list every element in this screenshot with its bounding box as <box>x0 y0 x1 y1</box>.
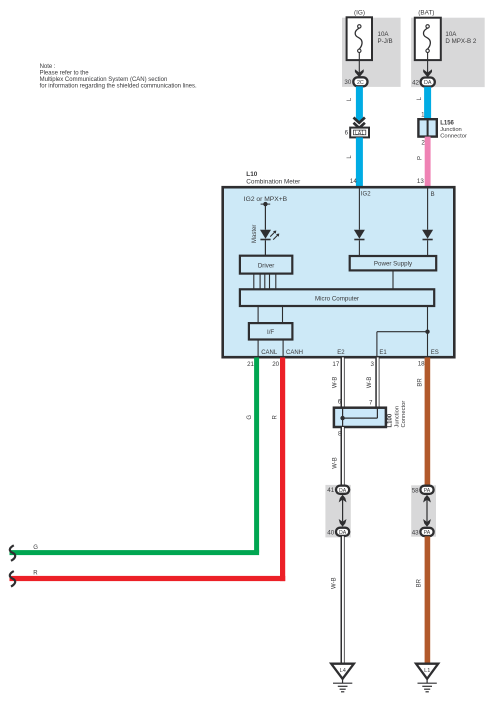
svg-text:ES: ES <box>431 350 439 356</box>
driver to micro computer bus wires <box>254 274 276 290</box>
node ES junction <box>425 330 429 334</box>
fuse block shading right (BAT) <box>411 18 485 87</box>
svg-text:Driver: Driver <box>258 262 275 269</box>
pin 1 <box>421 112 425 119</box>
svg-text:L156: L156 <box>440 121 454 127</box>
pin 13 <box>417 178 424 185</box>
wire W-B L100 pin8 down to connector 41 <box>341 427 345 486</box>
svg-text:13: 13 <box>417 178 424 185</box>
svg-text:Junction: Junction <box>394 406 400 428</box>
svg-text:BR: BR <box>416 578 422 587</box>
svg-text:(IG): (IG) <box>354 9 365 16</box>
svg-text:Master: Master <box>252 225 258 243</box>
pin name E2 <box>337 350 345 356</box>
wire fuse BAT to connector <box>427 53 429 78</box>
ground L4 <box>331 664 354 692</box>
wire color label BR rotated <box>416 578 422 587</box>
wire W-B connector 40 down to ground <box>341 536 345 664</box>
svg-text:E2: E2 <box>337 350 345 356</box>
pin 20 <box>272 361 279 368</box>
fuse IG value label <box>378 31 393 45</box>
svg-text:L10: L10 <box>246 171 257 178</box>
junction LA1 pin 6 <box>345 128 369 138</box>
wire W-B pin3 to L100 pin7 <box>375 357 379 407</box>
svg-text:PA: PA <box>424 530 431 536</box>
svg-text:Connector: Connector <box>440 134 467 140</box>
svg-text:CANL: CANL <box>261 350 278 356</box>
svg-text:40: 40 <box>327 529 334 536</box>
inline connector shading left <box>325 485 350 538</box>
wire BR (brown) pin18 down to connector 58 <box>425 357 431 485</box>
wire E1 branch <box>377 332 428 357</box>
svg-text:W-B: W-B <box>333 457 339 469</box>
wire fuse IG to connector <box>358 53 360 78</box>
wire W-B pin17 to L100 pin6 <box>341 357 345 407</box>
driver box <box>240 256 292 274</box>
Master label <box>252 225 258 243</box>
svg-text:P-J/B: P-J/B <box>378 38 393 45</box>
svg-text:17: 17 <box>332 361 339 368</box>
connector oval 2C pin 30 <box>344 77 367 86</box>
fuse BAT 10A D MPX-B 2 <box>415 18 441 60</box>
pin 17 <box>332 361 339 368</box>
svg-text:DA: DA <box>424 80 432 86</box>
inline connector shading right <box>411 485 436 536</box>
svg-text:R: R <box>273 414 279 419</box>
svg-text:CANH: CANH <box>286 350 303 356</box>
connector oval DA pin 42 <box>412 78 435 87</box>
wire R (red) CANH <box>10 357 286 581</box>
wire color label L <box>417 96 423 100</box>
svg-text:P: P <box>418 156 424 160</box>
power supply box <box>350 256 437 270</box>
svg-text:20: 20 <box>272 361 279 368</box>
pin 3 <box>371 361 375 368</box>
svg-text:10A: 10A <box>445 31 457 38</box>
svg-text:6: 6 <box>338 399 342 406</box>
connector arrows pair right <box>423 495 431 527</box>
svg-text:G: G <box>247 415 253 420</box>
svg-text:L100: L100 <box>388 413 394 427</box>
pin 8 of L100 <box>338 431 342 438</box>
combination meter L10 box <box>223 187 455 357</box>
connector arrows pair left <box>339 495 347 527</box>
svg-text:7: 7 <box>369 399 373 406</box>
wire color label W-B rotated <box>333 457 339 469</box>
svg-text:IG2: IG2 <box>361 192 371 198</box>
IG2 or MPX+B label <box>244 196 288 203</box>
fuse block shading left (IG) <box>342 18 401 87</box>
svg-text:6: 6 <box>345 129 349 136</box>
fuse BAT value label <box>445 31 477 45</box>
pin 7 of L100 <box>369 399 373 406</box>
L100 label rotated <box>388 401 407 428</box>
L10 label <box>246 171 301 185</box>
wire pin14 to diode <box>358 189 360 230</box>
pin 18 <box>418 360 425 367</box>
wire color label P <box>418 156 424 160</box>
wire color label BR rotated <box>417 378 423 387</box>
fuse IG 10A P-J/B <box>347 17 372 60</box>
I/F box <box>249 323 293 339</box>
svg-text:W-B: W-B <box>367 377 373 389</box>
svg-text:3: 3 <box>371 361 375 368</box>
svg-text:(BAT): (BAT) <box>418 9 434 16</box>
pin 2 <box>421 140 425 147</box>
wire L (blue) from 2C down <box>356 86 363 121</box>
shield chevrons above LA1 <box>354 118 365 129</box>
svg-text:18: 18 <box>418 360 425 367</box>
diode D2 <box>422 230 433 240</box>
pin 6 of L100 <box>338 399 342 406</box>
svg-text:L: L <box>417 96 423 100</box>
wire L (blue) from DA down to L156 <box>424 87 431 119</box>
svg-text:Connector: Connector <box>401 401 407 428</box>
pin name CANH <box>286 350 303 356</box>
wire color label R horizontal <box>33 571 38 577</box>
svg-text:1: 1 <box>421 112 425 119</box>
node with dot <box>261 202 271 206</box>
svg-text:for information regarding the: for information regarding the shielded c… <box>40 84 197 90</box>
wire P (pink) from L156 to meter pin 13 <box>425 137 431 188</box>
wires I/F to CANL CANH pins <box>258 340 283 357</box>
svg-text:2C: 2C <box>357 80 364 86</box>
label (IG) <box>354 9 365 16</box>
wire color label W-B rotated <box>333 377 339 389</box>
svg-text:43: 43 <box>412 529 419 536</box>
wire micro computer to ES <box>427 306 429 356</box>
svg-text:Junction: Junction <box>440 127 462 133</box>
connector oval PA pin 58 <box>412 486 434 495</box>
diode D1 <box>354 230 365 240</box>
wire power supply to micro computer <box>392 270 394 289</box>
wires micro computer to I/F <box>258 306 282 323</box>
svg-text:E1: E1 <box>379 350 387 356</box>
svg-text:LA1: LA1 <box>355 130 364 136</box>
svg-text:Multiplex Communication System: Multiplex Communication System (CAN) sec… <box>40 77 168 83</box>
svg-text:L1: L1 <box>424 668 430 674</box>
svg-text:D MPX-B 2: D MPX-B 2 <box>445 38 477 45</box>
svg-text:DA: DA <box>339 530 347 536</box>
connector oval DA pin 40 <box>327 528 349 537</box>
svg-text:L4: L4 <box>340 668 346 674</box>
continuation squiggle red <box>10 571 15 587</box>
micro computer box <box>240 289 434 306</box>
arrow into connector DA <box>423 69 432 77</box>
svg-text:PA: PA <box>424 488 431 494</box>
arrow into connector 2C <box>355 69 364 77</box>
wire color label W-B rotated <box>331 577 337 589</box>
svg-text:DA: DA <box>339 488 347 494</box>
ground L1 <box>416 664 438 692</box>
wire color label L <box>347 97 353 101</box>
wire BR connector 43 down to ground <box>425 536 431 663</box>
pin 14 <box>350 178 357 185</box>
wire node to LED <box>264 204 266 230</box>
label (BAT) <box>418 9 434 16</box>
svg-text:W-B: W-B <box>331 577 337 589</box>
wire G (green) CANL <box>10 357 260 555</box>
svg-text:L: L <box>347 97 353 101</box>
svg-text:14: 14 <box>350 178 357 185</box>
svg-text:BR: BR <box>417 378 423 387</box>
wire color label L <box>347 155 353 159</box>
svg-text:41: 41 <box>327 487 334 494</box>
continuation squiggle green <box>10 545 15 561</box>
note text block <box>40 64 197 90</box>
junction connector L100 <box>334 408 386 427</box>
svg-text:W-B: W-B <box>333 377 339 389</box>
svg-text:10A: 10A <box>378 31 390 38</box>
pin name ES <box>431 350 439 356</box>
pin label B <box>431 192 435 198</box>
pin name E1 <box>379 350 387 356</box>
svg-text:Power Supply: Power Supply <box>374 261 413 268</box>
pin label IG2 <box>361 192 371 198</box>
svg-text:42: 42 <box>412 79 419 86</box>
svg-text:G: G <box>33 545 38 551</box>
wire diode to power supply <box>427 240 429 256</box>
wire color label W-B rotated <box>367 377 373 389</box>
svg-text:L: L <box>347 155 353 159</box>
connector oval PA pin 43 <box>412 528 434 537</box>
svg-text:Please refer to the: Please refer to the <box>40 71 90 77</box>
svg-text:R: R <box>33 571 38 577</box>
svg-text:B: B <box>431 192 435 198</box>
svg-text:I/F: I/F <box>267 329 274 336</box>
LED Master <box>260 230 279 240</box>
svg-text:Micro Computer: Micro Computer <box>315 296 359 303</box>
wire LED to driver <box>264 240 266 255</box>
svg-text:21: 21 <box>247 361 254 368</box>
wire color label R rotated <box>273 414 279 419</box>
svg-text:58: 58 <box>412 487 419 494</box>
wire diode to power supply <box>358 240 360 256</box>
junction connector L156 <box>418 119 436 136</box>
pin name CANL <box>261 350 278 356</box>
wire pin13 to diode <box>427 189 429 230</box>
wire color label G horizontal <box>33 545 38 551</box>
L156 label <box>440 121 467 140</box>
svg-text:Combination Meter: Combination Meter <box>246 178 301 185</box>
wire color label G rotated <box>247 415 253 420</box>
pin 21 <box>247 361 254 368</box>
connector oval DA pin 41 <box>327 486 349 495</box>
svg-text:Note :: Note : <box>40 64 56 70</box>
wire L (blue) from LA1 to meter pin 14 <box>356 137 363 187</box>
svg-text:30: 30 <box>344 79 351 86</box>
